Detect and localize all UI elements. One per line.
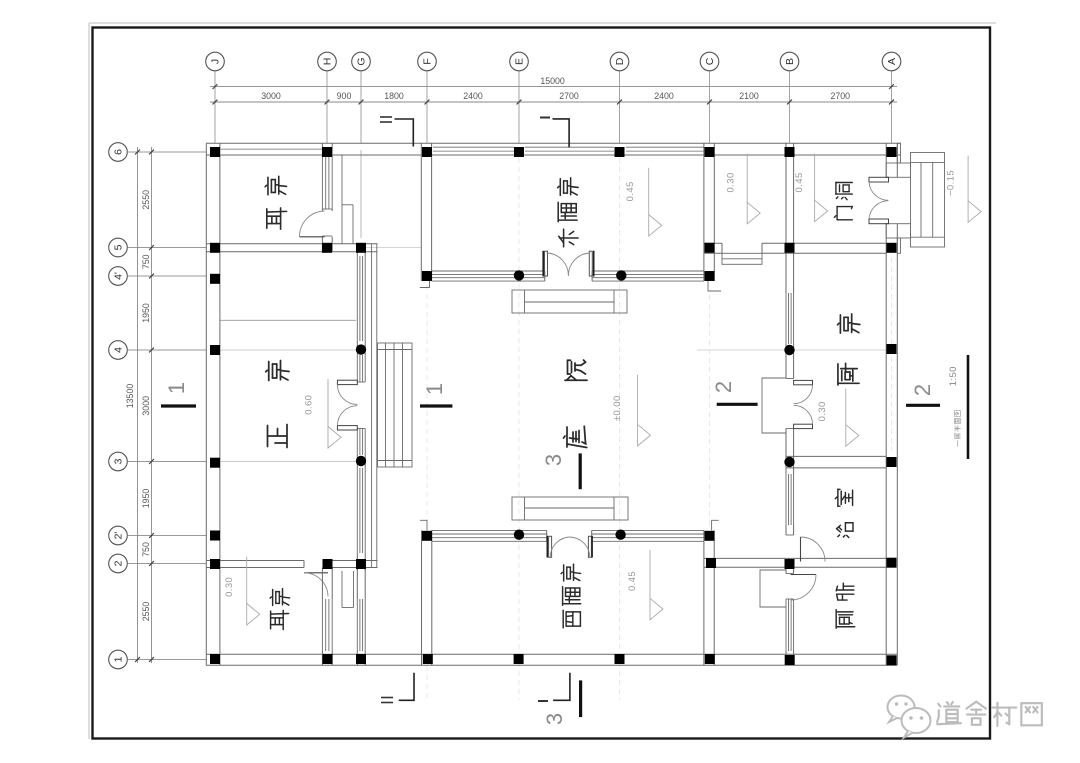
svg-text:2400: 2400 xyxy=(463,91,483,101)
svg-text:15000: 15000 xyxy=(540,76,565,86)
svg-text:2700: 2700 xyxy=(559,91,579,101)
svg-text:B: B xyxy=(784,58,796,65)
svg-text:3: 3 xyxy=(542,713,567,725)
svg-text:1:50: 1:50 xyxy=(948,366,959,386)
svg-text:3: 3 xyxy=(113,458,125,464)
svg-text:H: H xyxy=(322,58,334,66)
svg-text:0.45: 0.45 xyxy=(794,172,805,192)
svg-text:0.30: 0.30 xyxy=(726,172,737,192)
svg-text:1800: 1800 xyxy=(384,91,404,101)
svg-text:3000: 3000 xyxy=(261,91,281,101)
svg-text:6: 6 xyxy=(113,149,125,155)
svg-text:2': 2' xyxy=(113,532,125,540)
svg-text:2700: 2700 xyxy=(831,91,851,101)
svg-text:750: 750 xyxy=(141,542,151,557)
svg-text:13500: 13500 xyxy=(125,384,135,409)
svg-text:2550: 2550 xyxy=(141,190,151,210)
svg-text:2400: 2400 xyxy=(654,91,674,101)
svg-text:−0.15: −0.15 xyxy=(946,170,957,196)
svg-text:±0.00: ±0.00 xyxy=(612,395,623,421)
svg-text:4: 4 xyxy=(113,347,125,353)
svg-text:0.30: 0.30 xyxy=(224,577,235,597)
svg-text:2550: 2550 xyxy=(141,602,151,622)
svg-text:F: F xyxy=(422,58,434,64)
svg-text:1950: 1950 xyxy=(141,303,151,323)
svg-text:1: 1 xyxy=(113,656,125,662)
svg-text:0.30: 0.30 xyxy=(817,401,828,421)
svg-text:G: G xyxy=(356,57,368,65)
svg-text:4': 4' xyxy=(113,272,125,280)
svg-text:2: 2 xyxy=(711,381,736,393)
svg-text:0.60: 0.60 xyxy=(304,395,315,415)
svg-text:1: 1 xyxy=(422,383,447,395)
svg-text:J: J xyxy=(210,59,222,64)
svg-text:1950: 1950 xyxy=(141,489,151,509)
svg-text:1: 1 xyxy=(164,382,189,394)
svg-text:750: 750 xyxy=(141,254,151,269)
svg-text:2: 2 xyxy=(910,384,935,396)
svg-text:3: 3 xyxy=(541,454,566,466)
svg-text:900: 900 xyxy=(337,91,352,101)
svg-text:2100: 2100 xyxy=(739,91,759,101)
svg-text:0.45: 0.45 xyxy=(627,571,638,591)
svg-text:A: A xyxy=(886,58,898,65)
svg-text:2: 2 xyxy=(113,560,125,566)
svg-text:0.45: 0.45 xyxy=(625,181,636,201)
svg-text:5: 5 xyxy=(113,244,125,250)
svg-text:3000: 3000 xyxy=(141,396,151,416)
svg-text:C: C xyxy=(704,57,716,65)
svg-text:E: E xyxy=(514,58,526,65)
svg-text:D: D xyxy=(614,57,626,65)
